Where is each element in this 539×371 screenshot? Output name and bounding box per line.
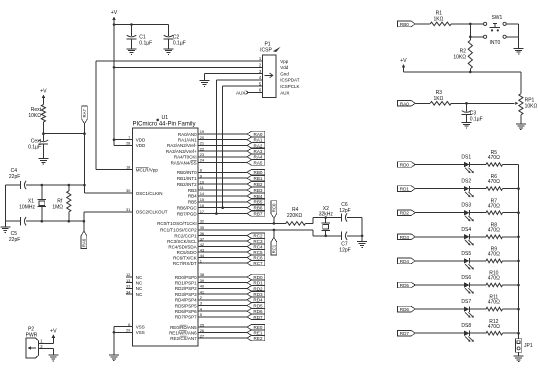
svg-text:RD1: RD1: [400, 187, 410, 192]
svg-text:28: 28: [126, 141, 131, 146]
chip pin 40 RD2: [175, 284, 265, 292]
diode DS1 LED: [461, 155, 486, 174]
node junction RC1: [273, 229, 276, 232]
diode DS6 LED: [461, 275, 486, 294]
svg-text:470Ω: 470Ω: [488, 300, 500, 306]
node junction Vdd rail: [113, 66, 116, 69]
svg-text:NC: NC: [136, 292, 143, 297]
svg-text:RD7: RD7: [400, 331, 410, 336]
connector P1 ICSP: [259, 42, 300, 98]
chip pin 8 RB0: [177, 168, 265, 176]
switch SW1 INT0: [484, 15, 507, 46]
ground VSS: [109, 355, 119, 361]
capacitor C3 0.1uF: [462, 103, 483, 122]
chip pin 27 RE2: [170, 333, 264, 341]
svg-text:RA1: RA1: [254, 138, 263, 143]
svg-text:RD2: RD2: [253, 286, 263, 291]
svg-text:RA0/AN0: RA0/AN0: [178, 132, 197, 137]
svg-text:0.1µF: 0.1µF: [28, 145, 41, 151]
chip pin 3 RD5: [175, 301, 265, 309]
resistor R11 470: [486, 295, 519, 311]
svg-text:RC2/CCP1: RC2/CCP1: [174, 233, 197, 238]
wire P2 pin1 to +V: [39, 338, 54, 343]
node junction VSS: [113, 331, 116, 334]
chip pin 25 RE0: [170, 322, 265, 330]
svg-text:RD4: RD4: [253, 298, 263, 303]
node junction LED rail row 6: [517, 284, 520, 287]
node junction C7/ground rail: [361, 235, 364, 238]
ground C3: [462, 122, 472, 128]
svg-text:DS4: DS4: [461, 227, 471, 233]
wire Vdd to ICSP pin2: [114, 66, 262, 68]
svg-text:RC1/T1OSI/CCP2: RC1/T1OSI/CCP2: [160, 228, 197, 233]
resistor R1 1K: [430, 11, 451, 26]
node RA6 tag: [81, 221, 87, 248]
svg-text:220KΩ: 220KΩ: [287, 213, 303, 219]
svg-text:RB3: RB3: [254, 188, 263, 193]
power +V (P2): [50, 329, 57, 342]
wire JP1 to ground: [518, 352, 520, 356]
svg-text:RB4: RB4: [254, 194, 263, 199]
svg-text:RC4: RC4: [253, 245, 263, 250]
svg-text:RD0/PSP0: RD0/PSP0: [175, 275, 197, 280]
svg-text:DS2: DS2: [461, 179, 471, 185]
svg-text:22pF: 22pF: [9, 174, 20, 180]
svg-text:RC6: RC6: [253, 256, 263, 261]
svg-text:+V: +V: [50, 329, 57, 335]
svg-text:RB5: RB5: [254, 200, 263, 205]
svg-text:RA4: RA4: [254, 155, 263, 160]
wire LED common rail: [518, 165, 520, 339]
svg-text:RC4/SDI/SDA: RC4/SDI/SDA: [168, 244, 196, 249]
svg-text:36: 36: [200, 231, 205, 236]
power +V (Rext): [40, 88, 47, 104]
wire SW1 to ground: [506, 24, 518, 48]
node RC0 tag (timer): [271, 201, 277, 224]
node RA0 tag: [398, 101, 431, 107]
svg-text:RC3: RC3: [253, 239, 263, 244]
chip pin 39 RD1: [175, 278, 265, 286]
chip U1 body: [133, 128, 199, 346]
svg-text:SW1: SW1: [491, 15, 502, 21]
svg-text:35: 35: [200, 225, 205, 230]
chip pin 30 OSC1/CLKIN: [126, 188, 163, 196]
svg-text:10MHz: 10MHz: [19, 204, 35, 210]
chip pin 9 RB1: [177, 173, 265, 181]
node junction LED rail row 4: [517, 236, 520, 239]
svg-text:37: 37: [200, 236, 205, 241]
chip pin 17 RB7: [177, 209, 265, 217]
chip pin 26 RE1: [169, 328, 265, 336]
node junction Rf bottom: [68, 220, 71, 223]
svg-text:RB2: RB2: [254, 182, 263, 187]
node junction VDD pin7: [113, 138, 116, 141]
crystal X2 32kHz: [319, 206, 334, 236]
svg-text:RA5/AN4/SS: RA5/AN4/SS: [171, 160, 197, 165]
node junction RA7/wire: [83, 132, 86, 135]
svg-text:RD2/PSP2: RD2/PSP2: [175, 286, 197, 291]
svg-text:42: 42: [200, 242, 205, 247]
svg-text:Vdd: Vdd: [280, 65, 289, 70]
svg-text:RA0: RA0: [400, 101, 409, 106]
ground oscillator: [0, 221, 10, 232]
svg-text:RD0: RD0: [400, 163, 410, 168]
svg-text:16: 16: [200, 203, 205, 208]
svg-text:NC: NC: [136, 281, 143, 286]
svg-text:RD3/PSP3: RD3/PSP3: [175, 292, 197, 297]
svg-text:470Ω: 470Ω: [488, 179, 500, 185]
svg-text:34: 34: [126, 289, 131, 294]
power +V (main): [111, 10, 118, 140]
svg-text:RD1: RD1: [253, 281, 263, 286]
svg-text:RB2/INT2: RB2/INT2: [177, 182, 197, 187]
wire ICSPDAT to RB7: [216, 80, 262, 214]
wire ground side: [4, 185, 6, 221]
svg-text:RA2/AN2/Vref-: RA2/AN2/Vref-: [167, 143, 197, 148]
svg-text:1KΩ: 1KΩ: [433, 96, 443, 102]
chip pin 24 RA5: [171, 158, 265, 166]
svg-text:RD1/PSP1: RD1/PSP1: [175, 281, 197, 286]
chip pin 42 RC4: [168, 242, 264, 250]
svg-text:RA1/AN1: RA1/AN1: [178, 138, 197, 143]
svg-text:ICSPCLK: ICSPCLK: [280, 84, 299, 89]
svg-text:RB0: RB0: [254, 170, 263, 175]
chip pin 15 RB5: [188, 197, 265, 205]
svg-text:U1: U1: [161, 115, 168, 121]
node RD5 tag (LED): [398, 282, 464, 288]
node junction LED rail row 2: [517, 187, 520, 190]
svg-text:VDD: VDD: [136, 143, 146, 148]
wire RA7 vertical: [84, 134, 86, 193]
crystal X1 10MHz: [19, 185, 46, 221]
ground C2: [164, 49, 174, 55]
svg-text:10KΩ: 10KΩ: [28, 113, 41, 119]
svg-text:RD6: RD6: [253, 309, 263, 314]
svg-text:RB0/INT0: RB0/INT0: [177, 170, 197, 175]
node junction X2 bottom: [324, 235, 327, 238]
chip pin 35 RC1: [160, 225, 313, 233]
resistor R12 470: [486, 319, 519, 335]
node RC1 tag (timer): [271, 230, 277, 255]
connector JP1: [516, 339, 533, 353]
svg-text:25: 25: [200, 322, 205, 327]
node junction X2 top: [324, 216, 327, 219]
svg-text:41: 41: [200, 289, 205, 294]
chip pin 2 RD4: [175, 295, 265, 303]
resistor R6 470: [486, 174, 519, 190]
chip pin 29 VSS: [114, 328, 145, 336]
svg-text:470Ω: 470Ω: [488, 324, 500, 330]
svg-text:30: 30: [126, 188, 131, 193]
node junction ICSPCLK/RB6: [221, 206, 224, 209]
svg-text:470Ω: 470Ω: [488, 227, 500, 233]
node RB0 tag: [398, 21, 431, 27]
svg-text:RC0: RC0: [272, 203, 277, 212]
wire R4 to X2 top: [306, 218, 342, 224]
resistor R9 470: [486, 247, 519, 263]
wire +V rail to RP1: [403, 72, 521, 94]
node junction X1 top: [41, 184, 44, 187]
svg-text:RA3/AN3/Vref+: RA3/AN3/Vref+: [166, 149, 197, 154]
svg-text:0.1µF: 0.1µF: [173, 40, 186, 46]
svg-text:10KΩ: 10KΩ: [453, 55, 466, 61]
svg-text:470Ω: 470Ω: [488, 252, 500, 258]
svg-text:RD5: RD5: [253, 303, 263, 308]
node RD7 tag (LED): [398, 330, 464, 336]
chip pin 44 RC6: [173, 253, 265, 261]
svg-text:RD3: RD3: [400, 235, 410, 240]
wire C6/C7 to ground: [361, 218, 363, 242]
chip pin 41 RD3: [175, 289, 265, 297]
svg-text:RD3: RD3: [253, 292, 263, 297]
svg-text:0.1µF: 0.1µF: [470, 116, 483, 122]
capacitor C1: [127, 25, 152, 49]
chip pin 12 NC: [126, 272, 143, 280]
svg-text:INT0: INT0: [489, 40, 500, 46]
chip pin 18 MCLR/Vpp: [96, 165, 159, 173]
svg-text:ICSP: ICSP: [260, 47, 272, 53]
chip pin 23 RA4: [174, 152, 265, 160]
svg-text:RD4: RD4: [400, 259, 410, 264]
resistor Rext 10K: [28, 105, 45, 123]
svg-text:AUX: AUX: [236, 90, 245, 95]
svg-text:VSS: VSS: [136, 330, 145, 335]
svg-text:RE0/RD/AN5: RE0/RD/AN5: [170, 325, 197, 330]
svg-text:14: 14: [200, 191, 205, 196]
svg-text:RE2/CS/AN7: RE2/CS/AN7: [170, 336, 197, 341]
node junction SW1 lower: [469, 36, 472, 39]
svg-text:29: 29: [126, 328, 131, 333]
capacitor Cext 0.1uF: [28, 134, 48, 159]
chip pin 10 RB2: [177, 179, 265, 187]
wire RC-osc node: [43, 133, 84, 135]
wire RC1 jog to X2 rail: [313, 230, 341, 236]
svg-text:27: 27: [200, 333, 205, 338]
diode DS4 LED: [461, 227, 486, 246]
wire ICSPCLK to RB6: [223, 86, 263, 208]
wire VSS to ground: [113, 327, 115, 355]
chip pin 36 RC2: [174, 231, 264, 239]
wire OSC2 to chip pin31: [84, 212, 133, 221]
svg-text:OSC2/CLKOUT: OSC2/CLKOUT: [136, 210, 168, 215]
ground P2: [48, 355, 58, 361]
svg-text:RC3/SCK/SCL: RC3/SCK/SCL: [167, 239, 197, 244]
chip U1 title: [132, 115, 195, 128]
svg-text:VSS: VSS: [136, 324, 145, 329]
svg-text:NC: NC: [136, 286, 143, 291]
capacitor C6 12pF: [339, 202, 362, 222]
node junction OSC1 rail: [83, 184, 86, 187]
svg-text:17: 17: [200, 209, 205, 214]
svg-text:VDD: VDD: [136, 138, 146, 143]
chip pin 1 RC7: [173, 258, 265, 266]
resistor R4 220K: [286, 207, 306, 225]
svg-text:AUX: AUX: [280, 90, 289, 95]
node junction OSC2: [83, 220, 86, 223]
power +V (pot rail): [400, 58, 407, 72]
svg-text:+V: +V: [111, 10, 118, 16]
chip pin 28 VDD: [114, 140, 146, 149]
svg-text:JP1: JP1: [524, 343, 533, 349]
svg-text:470Ω: 470Ω: [488, 276, 500, 282]
ground C1: [127, 49, 137, 55]
node junction LED rail row 5: [517, 260, 520, 263]
capacitor C5 22pF: [9, 217, 26, 243]
svg-text:RB1/INT1: RB1/INT1: [177, 176, 197, 181]
capacitor C2: [164, 25, 186, 49]
chip pin 4 RD6: [175, 306, 265, 314]
svg-text:1MΩ: 1MΩ: [52, 204, 63, 210]
svg-text:470Ω: 470Ω: [488, 155, 500, 161]
svg-text:RE1: RE1: [254, 331, 263, 336]
svg-text:Gnd: Gnd: [280, 71, 289, 76]
svg-text:NC: NC: [136, 275, 143, 280]
svg-text:RA2: RA2: [254, 143, 263, 148]
svg-text:40: 40: [200, 284, 205, 289]
node junction X1 bottom: [41, 220, 44, 223]
wire R1 to SW1: [451, 23, 483, 25]
node AUX: [236, 90, 262, 95]
diode DS5 LED: [461, 251, 486, 270]
svg-text:ICSPDAT: ICSPDAT: [280, 78, 299, 83]
svg-text:DS1: DS1: [461, 155, 471, 161]
svg-text:RC7/RX/DT: RC7/RX/DT: [173, 261, 197, 266]
chip pin 31 OSC2/CLKOUT: [126, 207, 168, 215]
svg-text:RB1: RB1: [254, 176, 263, 181]
chip pin 16 RB6: [177, 203, 265, 211]
svg-text:RD7: RD7: [253, 315, 263, 320]
node RD6 tag (LED): [398, 306, 464, 312]
svg-text:RD2: RD2: [400, 211, 410, 216]
svg-text:RA7: RA7: [82, 109, 87, 118]
svg-text:10: 10: [200, 179, 205, 184]
resistor R10 470: [486, 271, 519, 287]
node RD2 tag (LED): [398, 210, 464, 216]
svg-text:12: 12: [126, 272, 131, 277]
svg-text:13: 13: [126, 278, 131, 283]
svg-text:22pF: 22pF: [9, 237, 20, 243]
svg-text:10KΩ: 10KΩ: [525, 103, 538, 109]
capacitor C4 22pF: [9, 168, 26, 189]
svg-text:23: 23: [200, 152, 205, 157]
svg-text:RC2: RC2: [253, 234, 263, 239]
svg-text:RB6/PGC: RB6/PGC: [177, 206, 198, 211]
node junction Rf top: [68, 184, 71, 187]
node junction +V/branch: [113, 23, 116, 26]
chip pin 13 NC: [126, 278, 143, 286]
wire OSC1 rail: [5, 184, 84, 186]
chip pin 5 RD7: [175, 312, 265, 320]
chip pin 7 VDD: [114, 135, 146, 143]
resistor R8 470: [486, 222, 519, 238]
wire Gnd to ICSP pin3: [205, 74, 263, 81]
svg-text:RE0: RE0: [254, 325, 263, 330]
svg-text:RB3: RB3: [188, 188, 197, 193]
svg-text:RD0: RD0: [253, 275, 263, 280]
svg-text:44: 44: [200, 253, 205, 258]
chip pin 21 RA2: [167, 141, 265, 149]
capacitor C7 12pF: [339, 232, 362, 254]
chip pin 11 RB3: [188, 185, 265, 193]
svg-text:21: 21: [200, 141, 205, 146]
node RD0 tag (LED): [398, 162, 464, 168]
svg-text:RE2: RE2: [254, 336, 263, 341]
svg-text:OSC1/CLKIN: OSC1/CLKIN: [136, 191, 163, 196]
chip pin 33 NC: [126, 284, 143, 292]
svg-text:RB7: RB7: [254, 212, 263, 217]
svg-text:RC5/SDO: RC5/SDO: [177, 250, 198, 255]
svg-text:+V: +V: [400, 58, 407, 64]
svg-text:RC1: RC1: [272, 244, 277, 253]
node junction LED rail row 7: [517, 308, 520, 311]
svg-text:RA6: RA6: [82, 238, 87, 247]
node RD4 tag (LED): [398, 258, 464, 264]
wire OSC2 rail: [5, 220, 84, 222]
svg-text:RE1/WR/AN6: RE1/WR/AN6: [169, 330, 197, 335]
wire Rext to junction: [42, 122, 44, 134]
node junction ICSPDAT/RB7: [215, 212, 218, 215]
svg-text:RB6: RB6: [254, 206, 263, 211]
resistor R5 470: [486, 150, 519, 166]
svg-text:31: 31: [126, 207, 131, 212]
chip pin 38 RD0: [175, 272, 265, 280]
connector P2 PWR: [26, 326, 39, 358]
svg-text:18: 18: [126, 165, 131, 170]
node junction R1/SW1: [469, 23, 472, 26]
ground ICSP: [200, 81, 210, 87]
ground JP1: [514, 356, 524, 362]
svg-text:DS3: DS3: [461, 203, 471, 209]
chip pin 14 RB4: [188, 191, 265, 199]
svg-text:PICmicro 44-Pin Family: PICmicro 44-Pin Family: [132, 122, 195, 128]
resistor R3 1K: [430, 90, 451, 105]
node RD1 tag (LED): [398, 186, 464, 192]
wire decoupling branch: [114, 24, 169, 26]
svg-text:RD5/PSP5: RD5/PSP5: [175, 303, 197, 308]
svg-text:43: 43: [200, 247, 205, 252]
svg-text:RD7/PSP7: RD7/PSP7: [175, 315, 197, 320]
node junction LED rail row 8: [517, 332, 520, 335]
svg-text:RC5: RC5: [253, 250, 263, 255]
chip pin 6 VSS: [114, 322, 145, 330]
svg-text:20: 20: [200, 135, 205, 140]
svg-text:15: 15: [200, 197, 205, 202]
wire OSC1 to chip pin30: [85, 192, 133, 194]
node junction R2/+V rail: [469, 71, 472, 74]
node RD3 tag (LED): [398, 234, 464, 240]
chip pin 34 NC: [126, 289, 143, 297]
svg-text:DS6: DS6: [461, 275, 471, 281]
node junction C3: [465, 102, 468, 105]
svg-text:32: 32: [200, 219, 205, 224]
svg-text:RB4: RB4: [188, 194, 197, 199]
resistor Rf 1M: [52, 185, 71, 221]
resistor R7 470: [486, 198, 519, 214]
svg-text:0.1µF: 0.1µF: [139, 40, 152, 46]
svg-text:+V: +V: [40, 88, 47, 94]
svg-text:RB5: RB5: [188, 200, 197, 205]
svg-text:12pF: 12pF: [339, 247, 350, 253]
chip pin 20 RA1: [178, 135, 265, 143]
ground X2: [357, 242, 367, 248]
svg-text:RD6: RD6: [400, 307, 410, 312]
ground RP1: [516, 124, 526, 130]
svg-text:RC0/T1OSO/T1CKI: RC0/T1OSO/T1CKI: [157, 221, 197, 226]
svg-text:1KΩ: 1KΩ: [433, 17, 443, 23]
svg-text:RD5: RD5: [400, 283, 410, 288]
svg-text:RA4/T0CKI: RA4/T0CKI: [174, 155, 197, 160]
svg-text:RD6/PSP6: RD6/PSP6: [175, 309, 197, 314]
